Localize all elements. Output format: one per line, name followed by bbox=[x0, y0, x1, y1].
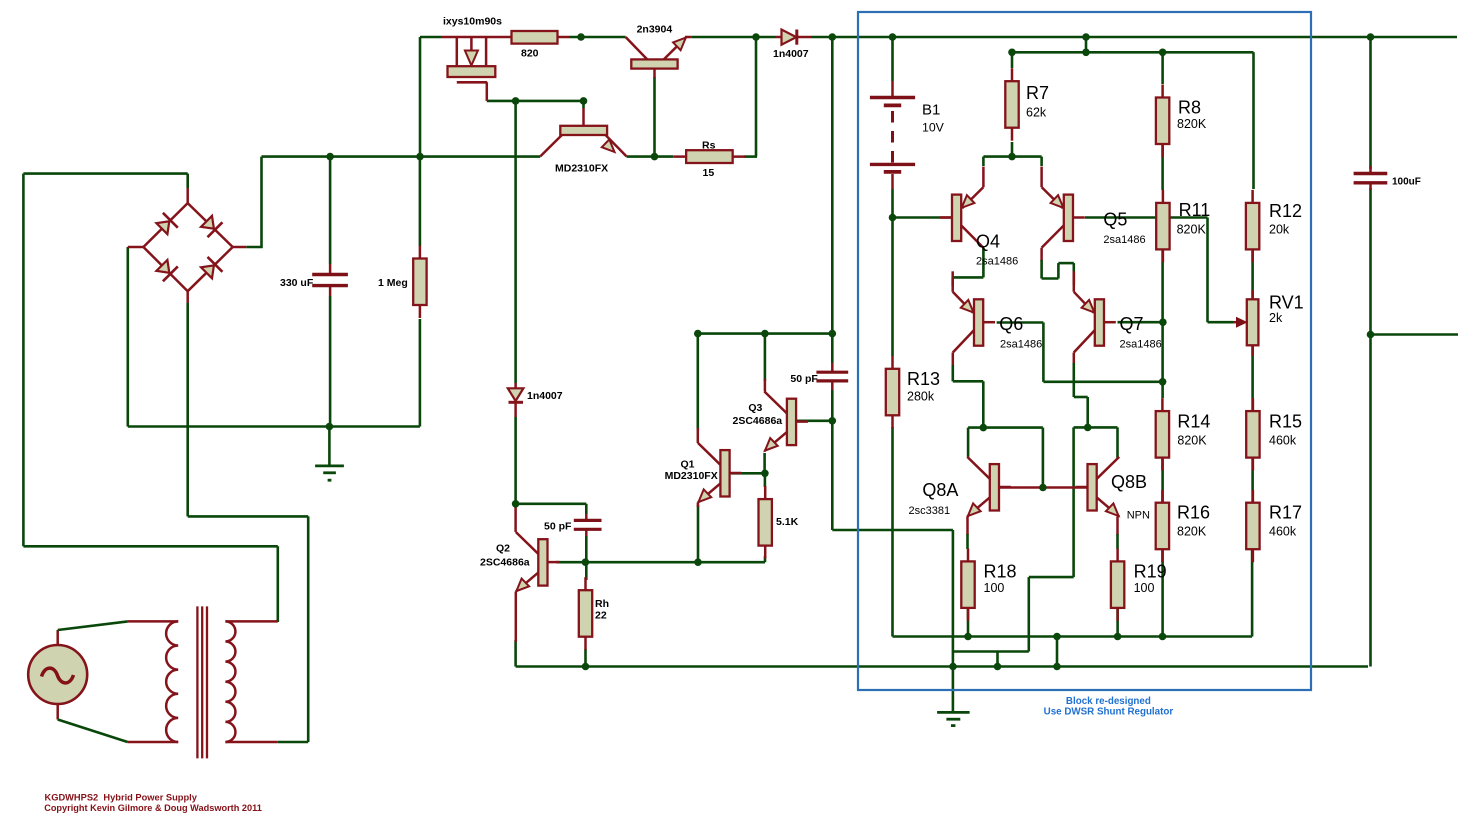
svg-text:2sc3381: 2sc3381 bbox=[909, 505, 951, 517]
wire 330uF column bbox=[328, 157, 331, 465]
junction bbox=[949, 663, 957, 671]
label Q6 value bbox=[1000, 339, 1042, 351]
svg-text:RV1: RV1 bbox=[1269, 293, 1304, 313]
resistor R19 bbox=[1111, 548, 1124, 621]
label B1 bbox=[922, 102, 940, 119]
resistor Rs bbox=[673, 150, 746, 163]
svg-text:Copyright Kevin Gilmore & Doug: Copyright Kevin Gilmore & Doug Wadsworth… bbox=[44, 803, 262, 813]
resistor 1Meg bbox=[413, 246, 426, 319]
wire Q1 emitter mid bbox=[697, 505, 700, 522]
svg-text:2sa1486: 2sa1486 bbox=[1000, 339, 1042, 351]
transistor Q2 bbox=[516, 532, 560, 592]
wire bridge+ to rail bbox=[246, 157, 261, 247]
label Q6 bbox=[999, 314, 1023, 334]
wire Q8A emitter to R18 bbox=[966, 534, 969, 549]
wire R12/RV1/R15/R17 column x=1252.6 bbox=[1251, 248, 1254, 503]
label copyright bbox=[44, 803, 262, 813]
wire Q3 emitter to Q1 base junction bbox=[731, 453, 765, 473]
svg-text:50 pF: 50 pF bbox=[790, 373, 818, 385]
wire + rail y=156.6 bbox=[262, 155, 758, 158]
wire Q3 base junction to output bbox=[796, 419, 832, 422]
label 50pF left bbox=[544, 521, 572, 533]
label 62k bbox=[1026, 106, 1047, 120]
label R17 value bbox=[1269, 525, 1297, 539]
wire R8/R11/R14/R16 column x=1162.6 bbox=[1161, 52, 1164, 636]
svg-text:10V: 10V bbox=[922, 121, 945, 135]
wire R17 bottom to rail A bbox=[1251, 550, 1254, 637]
potentiometer RV1 bbox=[1233, 290, 1258, 356]
ground (rectifier) bbox=[315, 466, 344, 480]
junction bbox=[761, 330, 769, 338]
label R14 bbox=[1177, 412, 1210, 432]
wire R7 bottom to Q4/Q5 emitters bbox=[983, 142, 1041, 157]
wire Q7 collector staircase bbox=[1074, 363, 1118, 458]
wire 5.1K top stub bbox=[764, 473, 767, 487]
svg-text:MD2310FX: MD2310FX bbox=[665, 470, 718, 482]
label R11 value bbox=[1177, 223, 1207, 237]
wire gate net bbox=[487, 101, 584, 108]
wire Q2 base rail y=562.2 bbox=[556, 556, 765, 562]
wire Q8B emitter lead bbox=[1116, 517, 1119, 536]
label RV1 bbox=[1269, 293, 1304, 313]
label R12 bbox=[1269, 201, 1302, 221]
wire Q2 collector node bbox=[516, 504, 587, 514]
svg-text:R19: R19 bbox=[1134, 562, 1167, 582]
wire bridge top corner to left rail bbox=[23, 174, 277, 622]
junction bbox=[1082, 33, 1090, 41]
label ixys10m90s bbox=[443, 16, 502, 28]
wire Q8A emitter lead bbox=[966, 517, 969, 536]
wire x=515.6 vertical (gate to Q2) bbox=[514, 101, 517, 504]
svg-text:R13: R13 bbox=[907, 369, 940, 389]
wire Q5 base to R11 bbox=[1085, 216, 1156, 219]
wire Q4 base lead bbox=[941, 216, 952, 219]
junction bbox=[326, 153, 334, 161]
junction bbox=[1159, 633, 1167, 641]
junction bbox=[1082, 49, 1090, 57]
label 1Meg bbox=[378, 277, 408, 289]
label R17 bbox=[1269, 503, 1302, 523]
wire Q2 collector lead bbox=[514, 504, 517, 532]
svg-text:NPN: NPN bbox=[1127, 510, 1150, 522]
label R16 bbox=[1177, 503, 1210, 523]
resistor R16 bbox=[1156, 490, 1169, 563]
label Q8B bbox=[1111, 472, 1147, 492]
diode 1n4007 (top) bbox=[776, 30, 812, 45]
svg-text:R15: R15 bbox=[1269, 412, 1302, 432]
label R19 bbox=[1134, 562, 1167, 582]
wire rail y=52.3 bbox=[1012, 37, 1254, 189]
label Q1 bbox=[681, 458, 695, 470]
wire Q1 emitter drop bbox=[697, 522, 700, 562]
bridge rectifier bbox=[128, 188, 247, 303]
junction bbox=[1159, 49, 1167, 57]
label Q2 bbox=[496, 543, 510, 555]
label 15 bbox=[703, 167, 715, 179]
junction bbox=[577, 33, 585, 41]
svg-text:2sa1486: 2sa1486 bbox=[1120, 339, 1162, 351]
svg-text:KGDWHPS2 Hybrid Power Supply: KGDWHPS2 Hybrid Power Supply bbox=[45, 793, 198, 803]
junction bbox=[829, 417, 837, 425]
label R19 value bbox=[1134, 581, 1155, 595]
junction bbox=[651, 153, 659, 161]
svg-text:100: 100 bbox=[984, 581, 1005, 595]
wire Q5 collector to Q7 emitter bbox=[1042, 260, 1074, 285]
wire Q6 collector staircase bbox=[953, 365, 984, 428]
label R15 bbox=[1269, 412, 1302, 432]
svg-text:Q1: Q1 bbox=[681, 458, 695, 470]
transistor Q6 bbox=[953, 271, 995, 352]
label 5.1K bbox=[776, 516, 799, 528]
capacitor 50pF (left) bbox=[574, 514, 602, 536]
wire Q7 base bbox=[1118, 321, 1163, 324]
svg-text:Rh: Rh bbox=[595, 598, 609, 610]
label 1n4007 top bbox=[773, 48, 809, 60]
junction bbox=[964, 633, 972, 641]
svg-text:460k: 460k bbox=[1269, 434, 1297, 448]
label Q8A value bbox=[909, 505, 951, 517]
label Q1 value bbox=[665, 470, 718, 482]
label 100uF bbox=[1392, 177, 1421, 188]
junction bbox=[761, 470, 769, 478]
ground (shunt block) bbox=[937, 712, 970, 725]
wire Q2 emitter drop bbox=[515, 592, 518, 642]
label block note 2 bbox=[1044, 707, 1174, 718]
svg-text:R12: R12 bbox=[1269, 201, 1302, 221]
label R11 bbox=[1179, 200, 1211, 220]
svg-text:22: 22 bbox=[595, 610, 607, 622]
svg-text:2sa1486: 2sa1486 bbox=[1103, 234, 1145, 246]
wire ground rail y=426.5 bbox=[128, 247, 420, 427]
AC source V1 bbox=[28, 630, 87, 720]
junction bbox=[1039, 484, 1047, 492]
label Q4 bbox=[976, 232, 1000, 252]
transistor Q1 bbox=[698, 443, 742, 503]
junction bbox=[694, 558, 702, 566]
capacitor 50pF (right) bbox=[816, 363, 848, 390]
svg-text:2sa1486: 2sa1486 bbox=[976, 256, 1018, 268]
label 1n4007 mid bbox=[527, 390, 563, 402]
junction bbox=[980, 424, 988, 432]
junction bbox=[326, 423, 334, 431]
wire 50pF to Q2 base junction bbox=[585, 536, 588, 580]
junction bbox=[1053, 633, 1061, 641]
junction bbox=[752, 33, 760, 41]
svg-text:R17: R17 bbox=[1269, 503, 1302, 523]
label R18 value bbox=[984, 581, 1005, 595]
wire Q4 collector to Q6 emitter bbox=[953, 248, 984, 286]
wire Q4 emitter lead bbox=[982, 157, 985, 166]
junction bbox=[829, 33, 837, 41]
label Q7 value bbox=[1120, 339, 1162, 351]
svg-text:MD2310FX: MD2310FX bbox=[555, 163, 608, 175]
resistor R14 bbox=[1156, 398, 1169, 471]
svg-text:100uF: 100uF bbox=[1392, 177, 1421, 188]
svg-text:1n4007: 1n4007 bbox=[773, 48, 809, 60]
label R8 value bbox=[1177, 117, 1207, 131]
svg-text:280k: 280k bbox=[907, 390, 935, 404]
junction bbox=[829, 330, 837, 338]
junction bbox=[889, 214, 897, 222]
transistor Q8B bbox=[1076, 457, 1120, 517]
blue block outline bbox=[858, 12, 1311, 690]
wire Q8 base rail bbox=[999, 486, 1088, 489]
wire output to shunt block bbox=[832, 427, 1073, 711]
junction bbox=[1053, 663, 1061, 671]
label NPN bbox=[1127, 510, 1150, 522]
svg-text:Rs: Rs bbox=[702, 140, 716, 152]
svg-text:1 Meg: 1 Meg bbox=[378, 277, 408, 289]
svg-text:5.1K: 5.1K bbox=[776, 516, 799, 528]
transistor Q8A bbox=[967, 457, 1011, 517]
wire Q5 emitter lead bbox=[1040, 157, 1043, 166]
transistor Q3 bbox=[764, 392, 808, 452]
label Q3 value bbox=[733, 415, 783, 427]
label 330uF bbox=[280, 277, 314, 289]
svg-text:Q5: Q5 bbox=[1103, 210, 1127, 230]
label 2k bbox=[1269, 311, 1283, 325]
svg-text:Q8A: Q8A bbox=[922, 480, 958, 500]
junction bbox=[1367, 331, 1375, 339]
wire left drop x=420 bbox=[419, 37, 422, 157]
label Q7 bbox=[1120, 314, 1144, 334]
label block note 1 bbox=[1066, 696, 1151, 707]
label 22 bbox=[595, 610, 607, 622]
resistor 820 bbox=[512, 31, 570, 44]
wire 2n3904 base drop bbox=[653, 77, 656, 157]
svg-text:2SC4686a: 2SC4686a bbox=[480, 557, 530, 569]
svg-text:Q8B: Q8B bbox=[1111, 472, 1147, 492]
svg-text:Block re-designed: Block re-designed bbox=[1066, 696, 1151, 707]
label 280k bbox=[907, 390, 935, 404]
resistor R11 bbox=[1156, 190, 1169, 263]
capacitor 330uF bbox=[312, 264, 348, 296]
wire Q7 collector lead bbox=[1073, 353, 1076, 365]
diode 1n4007 (middle) bbox=[508, 383, 524, 417]
junction bbox=[580, 97, 588, 105]
svg-text:ixys10m90s: ixys10m90s bbox=[443, 16, 502, 28]
resistor R8 bbox=[1156, 85, 1169, 158]
svg-text:Q2: Q2 bbox=[496, 543, 510, 555]
svg-text:R11: R11 bbox=[1179, 200, 1211, 220]
junction bbox=[1159, 318, 1167, 326]
label 820 bbox=[521, 48, 539, 60]
wire R18 bottom bbox=[967, 608, 970, 637]
wire current-mirror top y=427.6 bbox=[968, 428, 1043, 488]
junction bbox=[1114, 633, 1122, 641]
svg-text:330 uF: 330 uF bbox=[280, 277, 314, 289]
capacitor 100uF bbox=[1354, 166, 1388, 190]
svg-text:2n3904: 2n3904 bbox=[637, 24, 673, 36]
wire AC source to transformer primary bbox=[58, 621, 128, 742]
svg-text:Q3: Q3 bbox=[748, 402, 762, 414]
wire R7 top bbox=[1011, 52, 1014, 68]
svg-text:50 pF: 50 pF bbox=[544, 521, 572, 533]
junction bbox=[994, 663, 1002, 671]
svg-text:R8: R8 bbox=[1178, 98, 1201, 118]
resistor R7 bbox=[1005, 68, 1018, 141]
transistor 2n3904 bbox=[626, 37, 692, 78]
wire battery column x=892.5 bbox=[893, 37, 1253, 637]
junction bbox=[1159, 378, 1167, 386]
wire Q1 emitter lead bbox=[697, 502, 700, 507]
svg-text:2k: 2k bbox=[1269, 311, 1283, 325]
svg-text:15: 15 bbox=[703, 167, 715, 179]
MOSFET ixys10m90s bbox=[441, 37, 512, 101]
svg-text:Use DWSR Shunt Regulator: Use DWSR Shunt Regulator bbox=[1044, 707, 1174, 718]
wire Rh bottom bbox=[584, 649, 587, 667]
label R8 bbox=[1178, 98, 1201, 118]
junction bbox=[582, 558, 590, 566]
label R18 bbox=[984, 562, 1017, 582]
svg-text:820K: 820K bbox=[1177, 525, 1207, 539]
wire bridge bottom corner to xfmr secondary bbox=[188, 303, 309, 742]
junction bbox=[694, 330, 702, 338]
svg-text:1n4007: 1n4007 bbox=[527, 390, 563, 402]
svg-text:R16: R16 bbox=[1177, 503, 1210, 523]
wire x=832.3 vertical bbox=[831, 37, 834, 530]
svg-text:2SC4686a: 2SC4686a bbox=[733, 415, 783, 427]
junction bbox=[1084, 424, 1092, 432]
transistor MD2310FX (top) bbox=[540, 108, 626, 156]
wire bottom rail y=666.5 bbox=[516, 640, 1368, 667]
label Q5 bbox=[1103, 210, 1127, 230]
junction bbox=[512, 500, 520, 508]
transformer TR1 bbox=[128, 606, 278, 758]
resistor R15 bbox=[1246, 398, 1259, 471]
svg-text:Q4: Q4 bbox=[976, 232, 1000, 252]
resistor R12 bbox=[1246, 190, 1259, 263]
resistor Rh bbox=[579, 577, 592, 650]
svg-text:820: 820 bbox=[521, 48, 539, 60]
wire Q6 base bbox=[997, 323, 1163, 382]
resistor R18 bbox=[961, 548, 974, 621]
label Q4 value bbox=[976, 256, 1018, 268]
wire 1Meg top to rail bbox=[419, 157, 422, 246]
junction bbox=[889, 33, 897, 41]
wire Q5 collector lead bbox=[1040, 248, 1043, 261]
junction bbox=[1367, 33, 1375, 41]
transistor Q4 bbox=[940, 167, 983, 248]
wire Q1/Q3 collector rail y=333.6 bbox=[698, 334, 833, 430]
svg-text:20k: 20k bbox=[1269, 223, 1290, 237]
label title bbox=[45, 793, 198, 803]
label 2n3904 bbox=[637, 24, 673, 36]
label R15 value bbox=[1269, 434, 1297, 448]
label Q3 bbox=[748, 402, 762, 414]
transistor Q7 bbox=[1074, 271, 1116, 352]
label Q2 value bbox=[480, 557, 530, 569]
label R13 bbox=[907, 369, 940, 389]
label Q8A bbox=[922, 480, 958, 500]
label Q5 value bbox=[1103, 234, 1145, 246]
transistor Q5 bbox=[1042, 167, 1085, 248]
label 10V bbox=[922, 121, 945, 135]
svg-text:62k: 62k bbox=[1026, 106, 1047, 120]
resistor R13 bbox=[886, 356, 899, 429]
svg-text:Q7: Q7 bbox=[1120, 314, 1144, 334]
svg-text:820K: 820K bbox=[1177, 117, 1207, 131]
svg-text:100: 100 bbox=[1134, 581, 1155, 595]
svg-text:B1: B1 bbox=[922, 102, 940, 119]
svg-text:820K: 820K bbox=[1177, 434, 1207, 448]
wire R19 bottom bbox=[1116, 608, 1119, 637]
junction bbox=[512, 97, 520, 105]
wire stub to bottom rail bbox=[996, 652, 999, 667]
svg-text:R7: R7 bbox=[1026, 83, 1049, 103]
wire top rail y=37 bbox=[420, 36, 1457, 39]
label R7 bbox=[1026, 83, 1049, 103]
wire Q6 collector lead bbox=[952, 353, 955, 367]
junction bbox=[1008, 49, 1016, 57]
wire Rs to top rail bbox=[755, 37, 758, 157]
wire Q3 collector lead bbox=[764, 379, 767, 392]
label 20k bbox=[1269, 223, 1290, 237]
wire rail A to rail B stub bbox=[1056, 637, 1059, 667]
svg-text:R18: R18 bbox=[984, 562, 1017, 582]
junction bbox=[416, 153, 424, 161]
label MD2310FX top bbox=[555, 163, 608, 175]
junction bbox=[1008, 153, 1016, 161]
svg-text:820K: 820K bbox=[1177, 223, 1207, 237]
label R14 value bbox=[1177, 434, 1207, 448]
junction bbox=[582, 663, 590, 671]
label Rh bbox=[595, 598, 609, 610]
svg-text:460k: 460k bbox=[1269, 525, 1297, 539]
wire right column x=1370.5 bbox=[1371, 37, 1459, 667]
svg-text:R14: R14 bbox=[1177, 412, 1210, 432]
label R16 value bbox=[1177, 525, 1207, 539]
battery B1 bbox=[870, 81, 915, 189]
resistor 5.1K bbox=[759, 486, 772, 558]
label Rs bbox=[702, 140, 716, 152]
svg-text:Q6: Q6 bbox=[999, 314, 1023, 334]
wire R11 right to RV1 wiper bbox=[1169, 218, 1233, 323]
wire Q4 base bbox=[893, 216, 942, 219]
label 50pF right bbox=[790, 373, 818, 385]
wire Q1 collector lead bbox=[697, 428, 700, 443]
wire Q8B emitter to R19 bbox=[1116, 534, 1119, 549]
resistor R17 bbox=[1246, 490, 1259, 563]
